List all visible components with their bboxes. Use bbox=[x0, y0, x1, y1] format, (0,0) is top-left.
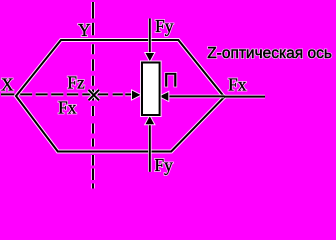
Y axis (vertical dashed line) bbox=[91, 2, 95, 189]
svg-text:Fx: Fx bbox=[228, 75, 247, 95]
plate P (Pockels cell plate) bbox=[142, 63, 160, 116]
svg-text:П: П bbox=[164, 70, 178, 92]
Z axis wire to the right of vertex bbox=[225, 95, 266, 99]
label Fy bottom bbox=[154, 155, 173, 175]
label Fy top bbox=[155, 16, 174, 36]
arrow Fy bottom (vertical, pointing up into plate) bbox=[146, 116, 155, 172]
label Fx left bbox=[58, 97, 77, 117]
label Y bbox=[78, 20, 91, 40]
origin junction cross marker bbox=[89, 90, 100, 101]
arrow Fy top (vertical, pointing down into plate) bbox=[146, 19, 155, 62]
svg-text:X: X bbox=[1, 75, 14, 95]
label Z optical axis bbox=[207, 45, 332, 62]
arrow Fx from right vertex (pointing left into plate) bbox=[160, 92, 225, 101]
label Fx right bbox=[228, 75, 247, 95]
svg-text:Fy: Fy bbox=[155, 16, 174, 36]
X axis (horizontal dashed line) bbox=[1, 93, 132, 97]
svg-text:Y: Y bbox=[78, 20, 91, 40]
svg-text:Fy: Fy bbox=[154, 155, 173, 175]
label Fz bbox=[67, 73, 85, 93]
svg-text:Fz: Fz bbox=[67, 73, 85, 93]
crystal hexagon outline bbox=[16, 40, 224, 152]
arrow Fz into plate (dashed, pointing right) bbox=[132, 91, 140, 100]
svg-text:Z-оптическая ось: Z-оптическая ось bbox=[207, 45, 332, 62]
svg-text:Fx: Fx bbox=[58, 97, 77, 117]
label P plate bbox=[164, 70, 178, 92]
label X bbox=[1, 75, 14, 95]
